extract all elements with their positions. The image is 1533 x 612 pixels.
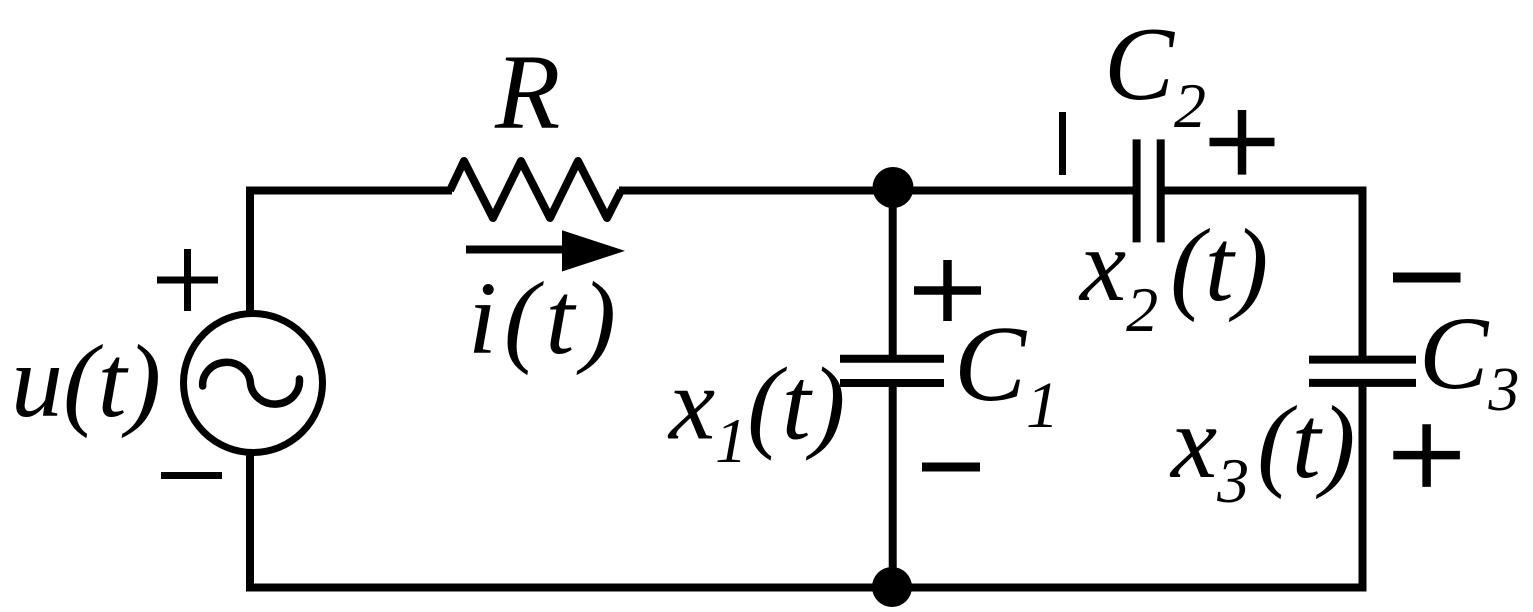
label x1(t) (voltage across C1) bbox=[667, 347, 845, 477]
wire: bottom horizontal bbox=[246, 584, 1367, 592]
polarity + (capacitor C3, bottom) bbox=[1393, 424, 1460, 487]
polarity + (capacitor C2, right) bbox=[1210, 110, 1275, 175]
wire: right vertical lower (C3 bottom plate to bottom-right corner) bbox=[1359, 383, 1367, 588]
label R (resistor) bbox=[494, 34, 560, 152]
label C1 (capacitor C1) bbox=[954, 305, 1059, 442]
polarity - (capacitor C1, bottom) bbox=[922, 463, 980, 472]
node A (top junction dot) bbox=[873, 167, 914, 208]
wire: left vertical upper (top-left corner to source top) bbox=[246, 187, 254, 313]
wire: top-left horizontal (source to resistor) bbox=[250, 187, 452, 195]
wire: resistor to node A bbox=[619, 187, 893, 195]
polarity - (capacitor C3, top) bbox=[1393, 273, 1461, 283]
svg-text:i(t): i(t) bbox=[468, 261, 623, 376]
polarity - (source, bottom) bbox=[161, 472, 222, 479]
svg-text:C3: C3 bbox=[1419, 296, 1519, 424]
capacitor C1 (vertical) bbox=[840, 359, 944, 383]
svg-text:x1(t): x1(t) bbox=[667, 347, 845, 477]
label x3(t) (voltage across C3) bbox=[1169, 385, 1355, 516]
wire: node A to capacitor C2 left plate bbox=[893, 187, 1137, 195]
label C2 (capacitor C2) bbox=[1104, 5, 1206, 141]
label i(t) (current) bbox=[468, 261, 623, 376]
svg-text:C1: C1 bbox=[954, 305, 1059, 442]
label u(t) (source voltage) bbox=[11, 324, 161, 439]
wire: capacitor C2 right plate to top-right corner bbox=[1161, 187, 1363, 195]
svg-text:x3(t): x3(t) bbox=[1169, 385, 1355, 516]
resistor R bbox=[450, 161, 621, 218]
svg-text:x2(t): x2(t) bbox=[1078, 208, 1268, 345]
node B (bottom junction dot) bbox=[872, 567, 912, 607]
wire: left vertical lower (source bottom to bottom-left corner) bbox=[246, 453, 254, 588]
current arrow i(t) bbox=[466, 230, 625, 271]
wire: middle vertical upper (node A to C1 top plate) bbox=[889, 188, 897, 359]
wire: middle vertical lower (C1 bottom plate to node B) bbox=[889, 383, 897, 587]
sine symbol inside source bbox=[203, 362, 300, 404]
capacitor C2 (horizontal, plates vertical) bbox=[1137, 139, 1161, 242]
polarity + (capacitor C1, top) bbox=[914, 260, 981, 321]
label x2(t) (voltage across C2) bbox=[1078, 208, 1268, 345]
label C3 (capacitor C3) bbox=[1419, 296, 1519, 424]
AC voltage source u(t) (circle) bbox=[184, 314, 323, 453]
capacitor C3 (vertical) bbox=[1309, 360, 1416, 383]
polarity + (source, top) bbox=[157, 249, 218, 311]
svg-text:u(t): u(t) bbox=[11, 324, 161, 439]
svg-text:R: R bbox=[494, 34, 560, 152]
polarity - (capacitor C2, left, drawn as vertical bar) bbox=[1059, 112, 1066, 175]
wire: right vertical upper (to C3 top plate) bbox=[1359, 187, 1367, 360]
svg-text:C2: C2 bbox=[1104, 5, 1206, 141]
